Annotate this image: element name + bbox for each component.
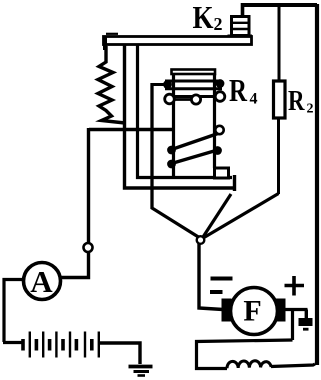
coil R4 lower winding spiral (167, 126, 224, 169)
platform right cap (233, 175, 236, 191)
ammeter A (24, 263, 61, 300)
wire right vertical main (315, 4, 319, 365)
svg-text:A: A (30, 264, 53, 299)
wire coil feed (153, 83, 166, 86)
node terminal on left wire (84, 243, 93, 252)
wire K2 drop (241, 3, 245, 17)
electromagnet core cylinder (172, 70, 216, 178)
ground right (299, 310, 313, 330)
ground left (129, 367, 153, 376)
wire R2 lower (277, 116, 280, 194)
svg-text:2: 2 (307, 102, 314, 117)
armature bar (104, 34, 252, 50)
svg-text:F: F (243, 295, 261, 328)
svg-text:4: 4 (250, 91, 258, 108)
frame right rod / platform top (138, 44, 233, 178)
wire bottom rail with inductor (197, 340, 293, 369)
node funnel vertex (197, 236, 205, 244)
resistor R2 (274, 81, 286, 118)
coil R4 top winding (163, 79, 225, 104)
wire horizontal mid (89, 128, 173, 132)
svg-text:R: R (288, 86, 305, 117)
wire bottom rail right (271, 364, 315, 367)
coil tap terminal (191, 95, 200, 104)
motor F (222, 288, 286, 335)
svg-text:R: R (229, 72, 248, 108)
svg-text:2: 2 (214, 14, 223, 34)
battery (23, 332, 99, 358)
wire into battery (3, 341, 22, 344)
label minus (210, 279, 233, 293)
wire coil feed down to funnel (152, 83, 200, 238)
spring (98, 46, 125, 123)
svg-text:K: K (193, 0, 214, 35)
wire battery to ground (99, 343, 140, 364)
platform step block (215, 168, 229, 178)
wire left vertical to ammeter (61, 128, 89, 278)
wire ammeter left down (4, 280, 24, 343)
wire motor right (285, 308, 308, 311)
coil tap wire (174, 98, 191, 101)
frame left rod / platform bottom (125, 44, 237, 188)
switch contact K2 (228, 17, 253, 41)
wire R2 upper (278, 4, 281, 82)
label plus (285, 276, 305, 296)
wire junction drop (291, 310, 294, 341)
wire long diagonal to R2 (204, 194, 279, 238)
wire top right horizontal (242, 3, 318, 7)
wire vertex down to motor (199, 244, 223, 310)
inductor coil bumps (227, 361, 271, 369)
funnel right slope (203, 194, 231, 237)
